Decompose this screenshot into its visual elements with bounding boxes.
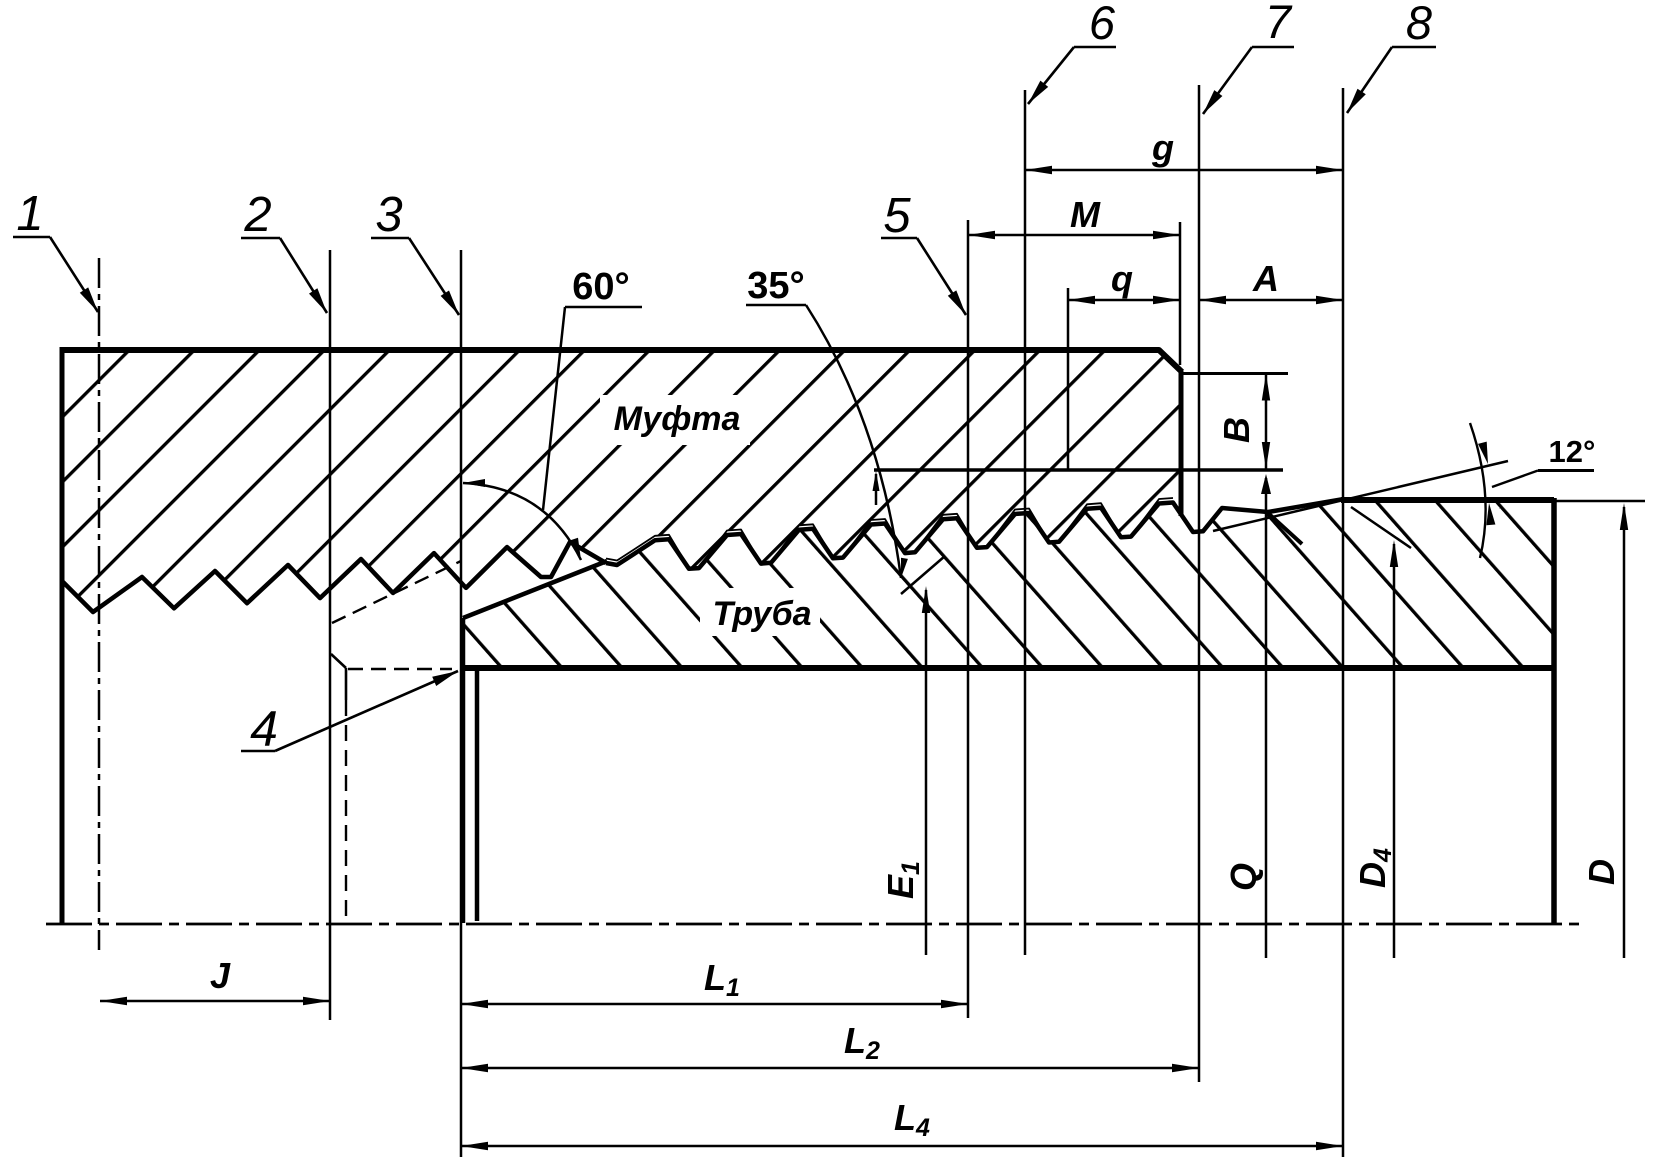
dimension D4 (vertical with up arrow) [1393,544,1396,958]
coupling thread root clearance line (thin) [606,498,1173,568]
svg-text:3: 3 [375,188,402,242]
coupling left end face [60,347,65,923]
svg-text:7: 7 [1265,0,1293,48]
pipe bore visible end line [475,668,480,921]
coupling body hatching (Муфта) [62,349,1181,612]
pipe thread profile (mated section, thick) [606,499,1344,569]
coupling recess bore line (solid then dashed) [345,668,348,700]
svg-text:M: M [1070,194,1101,235]
60 deg arc [463,483,581,560]
dimension E1 (vertical with up arrow) [925,590,928,955]
svg-text:5: 5 [883,189,911,243]
dimension Q (vertical with up arrow) [1265,478,1268,958]
svg-text:4: 4 [250,701,278,757]
B top reference line [1181,372,1288,375]
coupling recess chamfer corner [331,654,346,668]
callout line 2 [329,250,332,1020]
svg-text:8: 8 [1406,0,1432,49]
dimension B (vertical) [1265,374,1268,470]
svg-text:60°: 60° [572,266,629,308]
dimension J [100,1000,330,1003]
svg-text:Труба: Труба [712,595,811,633]
dimension D (vertical with up arrow) [1623,507,1626,958]
OD extension line for D dimension [1554,500,1645,503]
coupling right end face [1179,371,1184,516]
coupling thread profile (sharp V section) [62,542,606,612]
pipe inner bore line (bottom) [461,665,1554,671]
svg-text:35°: 35° [747,265,804,307]
dimension g [1025,169,1343,172]
35 deg flank extension line [901,556,945,594]
svg-text:J: J [210,955,231,996]
taper extension line (12 deg construction) [1213,461,1508,531]
35 deg vertical stub with up arrow [875,474,878,505]
hidden thread runout line (dashed diagonal) [332,561,461,623]
callout line 8 / L4 extension [1342,88,1345,1157]
callout line 3 / dimension reference [460,250,463,1157]
coupling (Муфта) top edge with chamfer [62,350,1182,372]
svg-text:Муфта: Муфта [614,400,741,438]
svg-text:1: 1 [16,187,43,241]
svg-text:A: A [1252,258,1279,299]
pipe tip chamfer [463,561,607,618]
M right extension line [1179,222,1182,365]
dimension L2 [461,1067,1199,1070]
svg-text:6: 6 [1089,0,1116,49]
pipe right end face [1551,498,1557,923]
B bottom reference line (y=470) [874,468,1283,472]
thread runout fall flank at crest end [1268,513,1302,544]
callout line 7 / L2 extension [1198,85,1201,1082]
pipe outside surface after thread runout [1341,497,1554,503]
dimension L1 [461,1003,968,1006]
thread runout flank line near D4 [1351,507,1411,548]
svg-text:q: q [1111,258,1133,299]
svg-text:Q: Q [1223,863,1264,891]
q left extension line [1067,288,1070,470]
dimension q [1068,299,1180,302]
svg-text:g: g [1151,127,1174,168]
callout line 6 / g extension [1024,90,1027,955]
dimension M [968,234,1180,237]
svg-text:2: 2 [243,188,271,242]
dimension L4 [461,1145,1343,1148]
callout line 1 (dash-dot vertical) [98,258,101,950]
centerline (axis) [46,923,1580,926]
pipe body hatching (Труба) [464,499,1554,666]
svg-text:D: D [1581,859,1622,885]
callout line 5 / L1 extension [967,220,970,1018]
12 deg angle arc with arrows [1470,423,1486,558]
hidden recess bottom line (dashed) [348,668,452,670]
svg-text:B: B [1216,417,1257,443]
pipe end face at tip [461,618,466,923]
dimension A [1199,299,1343,302]
svg-text:12°: 12° [1549,434,1596,469]
